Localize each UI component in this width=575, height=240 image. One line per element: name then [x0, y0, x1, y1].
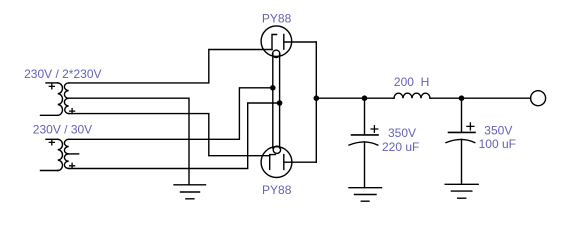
svg-text:PY88: PY88 [262, 183, 292, 197]
svg-text:200 H: 200 H [394, 75, 429, 89]
svg-text:220 uF: 220 uF [382, 140, 419, 154]
svg-text:350V: 350V [484, 124, 512, 138]
svg-text:PY88: PY88 [262, 12, 292, 26]
svg-text:230V / 2*230V: 230V / 2*230V [24, 67, 101, 81]
svg-text:230V / 30V: 230V / 30V [33, 123, 92, 137]
svg-text:100 uF: 100 uF [479, 137, 516, 151]
svg-text:350V: 350V [388, 126, 416, 140]
